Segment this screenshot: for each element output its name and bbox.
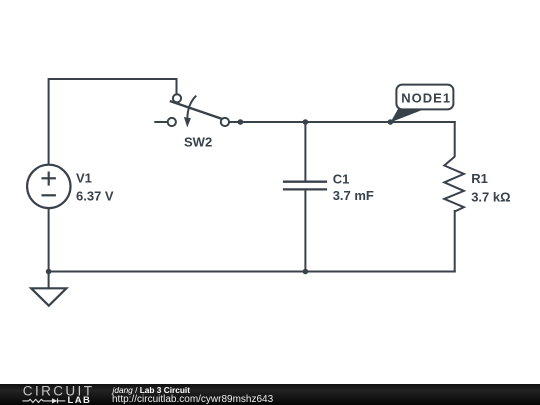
switch SW2 arrow	[184, 96, 196, 128]
svg-text:NODE1: NODE1	[401, 91, 451, 106]
capacitor C1 plates	[283, 182, 327, 190]
junction dot switch-right	[238, 119, 244, 125]
switch SW2 blade	[170, 101, 226, 120]
wire C1 bottom	[304, 191, 306, 272]
footer bar	[0, 384, 540, 405]
switch right terminal	[221, 118, 229, 126]
wire V1 top to switch common	[49, 79, 177, 164]
logo diode	[52, 398, 57, 403]
wire right branch upper	[454, 122, 456, 156]
wire bottom rail	[49, 271, 455, 273]
junction dot ground	[46, 269, 52, 275]
wire right branch lower	[454, 211, 456, 272]
logo mini-schematic	[22, 398, 65, 403]
voltage source V1	[27, 165, 70, 208]
svg-text:3.7 kΩ: 3.7 kΩ	[471, 189, 510, 204]
svg-text:C1: C1	[333, 171, 350, 186]
svg-text:V1: V1	[76, 170, 92, 185]
junction dot C1 top	[303, 119, 309, 125]
resistor R1 zigzag	[444, 157, 464, 212]
ground	[31, 288, 66, 305]
node NODE1 callout tail	[390, 109, 421, 123]
junction dot NODE1	[388, 119, 394, 125]
switch left terminal	[168, 118, 176, 126]
svg-text:LAB: LAB	[68, 395, 92, 405]
svg-text:6.37 V: 6.37 V	[76, 188, 114, 203]
svg-text:SW2: SW2	[184, 134, 212, 149]
node NODE1 box	[396, 85, 453, 110]
svg-text:http://circuitlab.com/cywr89ms: http://circuitlab.com/cywr89mshz643	[112, 394, 274, 405]
wire C1 top	[304, 122, 306, 180]
wire V1 bottom to ground rail	[48, 208, 50, 272]
wire top rail after switch	[229, 121, 455, 123]
svg-text:3.7 mF: 3.7 mF	[333, 188, 374, 203]
junction dot C1 bottom	[303, 269, 309, 275]
svg-text:R1: R1	[471, 171, 488, 186]
wire switch left stub	[155, 121, 167, 123]
wire ground stub	[48, 272, 50, 289]
switch common terminal	[173, 94, 181, 102]
